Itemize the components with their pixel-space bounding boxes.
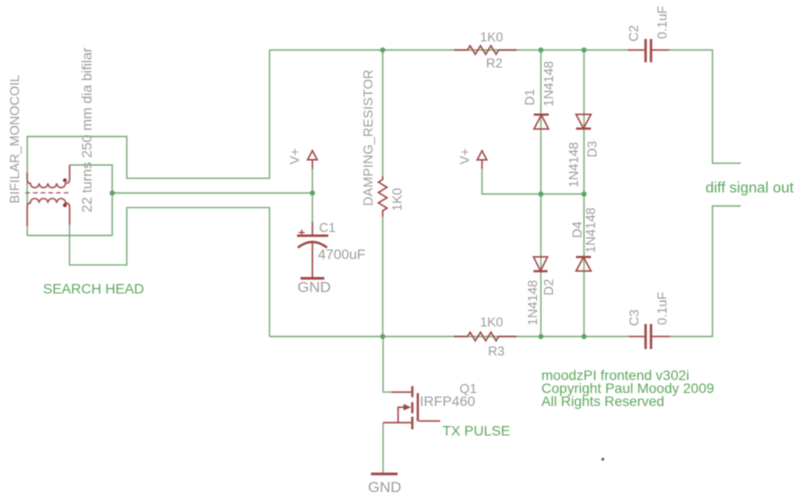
transistor Q1 body arrow [398, 407, 405, 422]
capacitor C3 plates [646, 324, 651, 349]
wire damping resistor lower [382, 217, 384, 337]
coil core dashed line [25, 192, 69, 194]
power symbol V+ left arrow [308, 151, 318, 160]
capacitor C1 top plate [297, 234, 328, 236]
power pin V+ right [481, 160, 483, 169]
junction coil node [110, 190, 115, 195]
svg-text:diff signal out: diff signal out [706, 180, 795, 197]
svg-text:C3: C3 [626, 309, 641, 326]
svg-text:D2: D2 [541, 279, 556, 296]
svg-text:D3: D3 [584, 141, 599, 158]
wire middle right V+ to bridge [482, 169, 584, 194]
svg-text:1N4148: 1N4148 [541, 61, 556, 107]
junction V+ C1 node [310, 190, 315, 195]
svg-text:V+: V+ [457, 148, 472, 164]
resistor R3 [454, 332, 517, 341]
svg-text:TX PULSE: TX PULSE [443, 423, 511, 439]
stray ink dot [601, 458, 604, 461]
resistor R2 [454, 46, 517, 55]
resistor R1 damping [378, 176, 387, 216]
svg-text:22 turns 250 mm dia bifilar: 22 turns 250 mm dia bifilar [79, 47, 95, 212]
junction bottom rail at Q1 drain [380, 334, 385, 339]
svg-text:1N4148: 1N4148 [525, 280, 540, 326]
svg-text:V+: V+ [287, 148, 302, 164]
junction bridge middle left [538, 191, 543, 196]
wire middle left V+ feed [112, 192, 312, 194]
inductor L1 upper winding (bifilar coil) [27, 165, 69, 188]
svg-text:SEARCH HEAD: SEARCH HEAD [43, 281, 144, 297]
capacitor C2 left lead [628, 49, 645, 51]
svg-text:4700uF: 4700uF [318, 246, 365, 262]
svg-text:0.1uF: 0.1uF [655, 6, 670, 39]
svg-text:All Rights Reserved: All Rights Reserved [541, 393, 664, 409]
capacitor C1 pin lower [311, 242, 313, 278]
wire D3-D4 column [583, 50, 585, 337]
power pin V+ left [311, 160, 313, 169]
junction bridge middle right [581, 191, 586, 196]
junction top rail at D1 [538, 47, 543, 52]
wire coil upper pin horizontal [70, 164, 113, 166]
capacitor C3 right lead [652, 336, 670, 338]
wire V+ left drop to C1 [311, 169, 313, 222]
capacitor C1 plus sign [299, 230, 305, 236]
svg-text:GND: GND [368, 479, 402, 496]
transistor Q1 channel bar segments [411, 386, 413, 429]
capacitor C1 pin upper [311, 222, 313, 236]
diode D2 cathode bar [534, 270, 548, 272]
wire Q1 source to ground [382, 423, 384, 474]
wire D1-D2 column [540, 50, 542, 337]
wire top rail right segment and diff out upper stub [669, 50, 741, 163]
svg-text:GND: GND [298, 279, 332, 296]
diode D4 triangle [576, 257, 591, 271]
wire top rail left segment [270, 49, 628, 51]
diode D1 triangle [534, 115, 549, 129]
transistor Q1 drain pin [392, 391, 412, 393]
svg-text:R2: R2 [486, 56, 503, 71]
junction bottom rail at D4 [581, 334, 586, 339]
capacitor C1 curved plate [298, 242, 327, 248]
junction top rail at D3 [581, 47, 586, 52]
inductor L1 lower winding (bifilar coil) [27, 198, 69, 226]
wire damping resistor upper [382, 50, 384, 176]
transistor Q1 gate bar [417, 393, 419, 421]
diode D1 cathode bar [534, 113, 549, 115]
svg-text:0.1uF: 0.1uF [655, 292, 670, 325]
svg-text:1K0: 1K0 [480, 315, 503, 330]
diode D2 triangle [534, 257, 548, 271]
diode D3 cathode bar [576, 128, 591, 130]
diode D4 cathode bar [576, 256, 591, 258]
coil polarity dot lower [63, 203, 67, 207]
wire bottom rail left segment [270, 336, 629, 338]
svg-text:BIFILAR_MONOCOIL: BIFILAR_MONOCOIL [7, 75, 22, 204]
svg-text:C1: C1 [319, 220, 336, 235]
ground GND bar below Q1 [371, 473, 398, 476]
capacitor C3 left lead [629, 336, 645, 338]
diode D3 triangle [576, 114, 591, 128]
transistor Q1 gate lead [419, 420, 440, 422]
wire lower coil path to bottom rail [70, 208, 270, 337]
svg-text:C2: C2 [626, 25, 641, 42]
ground GND bar below C1 [301, 277, 325, 280]
svg-text:1N4148: 1N4148 [566, 142, 581, 188]
wire coil inner vertical [111, 164, 113, 235]
svg-text:DAMPING_RESISTOR: DAMPING_RESISTOR [361, 69, 376, 206]
transistor Q1 source pin [383, 422, 411, 424]
svg-text:1N4148: 1N4148 [583, 207, 598, 253]
capacitor C2 right lead [652, 49, 669, 51]
svg-text:1K0: 1K0 [390, 188, 405, 211]
junction bottom rail at D2 [538, 334, 543, 339]
wire coil bottom edge [27, 235, 112, 237]
svg-text:D1: D1 [522, 89, 537, 106]
junction top rail at damping resistor [380, 47, 385, 52]
wire Q1 drain [383, 337, 392, 393]
coil polarity dot upper [63, 178, 67, 182]
capacitor C2 plates [646, 39, 651, 62]
transistor Q1 body arrowhead [404, 404, 412, 411]
svg-text:R3: R3 [488, 344, 505, 359]
svg-text:IRFP460: IRFP460 [420, 393, 475, 409]
wire bottom rail right segment and diff out lower stub [670, 206, 741, 337]
wire coil outer loop left/top [27, 50, 269, 236]
svg-text:1K0: 1K0 [480, 29, 503, 44]
power symbol V+ right arrow [477, 151, 487, 160]
